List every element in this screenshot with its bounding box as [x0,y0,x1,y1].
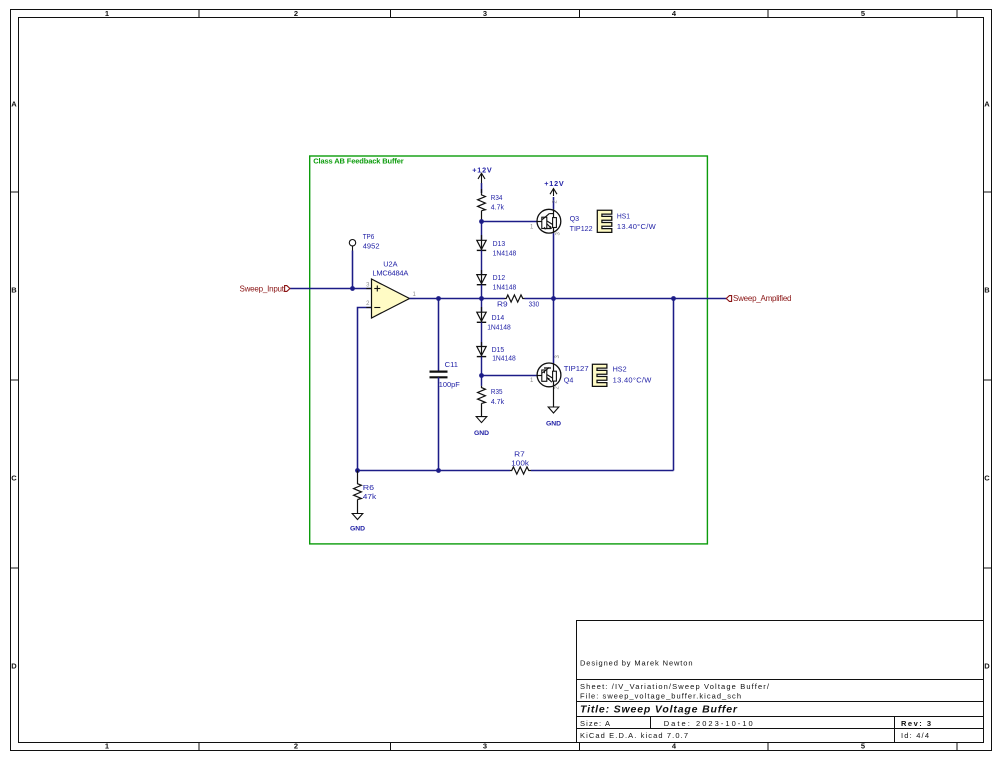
svg-text:B: B [11,286,17,295]
wire junction to Q4 base [482,375,538,377]
svg-text:1N4148: 1N4148 [493,283,517,292]
node junction TP6/input [350,286,355,291]
wire input [290,288,372,290]
wire feedback left [358,470,511,472]
diode D15 [477,342,516,362]
svg-text:D12: D12 [493,273,506,282]
svg-text:1N4148: 1N4148 [487,322,511,331]
svg-text:4952: 4952 [363,241,380,250]
svg-text:C: C [11,474,17,483]
resistor R6 [354,471,377,502]
test point TP6 [349,232,379,288]
resistor R7 [510,449,531,474]
wire D14 to D15 [481,322,483,346]
wire C11 top [438,299,440,372]
wire junction to Q3 base [482,221,537,223]
wire D13 to D12 [481,250,483,274]
heatsink HS1 [597,210,656,232]
wire +12V to Q3 collector [553,197,555,209]
svg-text:TIP122: TIP122 [570,224,593,233]
op-amp input pin stubs [366,288,372,290]
svg-text:Sheet: /IV_Variation/Sweep Vol: Sheet: /IV_Variation/Sweep Voltage Buffe… [580,682,770,691]
node junction output/feedback [671,296,676,301]
svg-text:2: 2 [294,742,298,751]
svg-text:1N4148: 1N4148 [492,353,516,362]
svg-text:D: D [11,662,17,671]
svg-text:1: 1 [105,9,109,18]
wire Q3 emitter to output [553,233,555,298]
diode D12 [477,270,516,292]
wire R34 junction down to D13 [481,222,483,241]
svg-text:Sweep_Input: Sweep_Input [240,285,285,294]
node junction output/diode chain [479,296,484,301]
svg-text:47k: 47k [363,492,377,501]
svg-text:100pF: 100pF [439,380,460,389]
svg-text:Date: 2023-10-10: Date: 2023-10-10 [664,719,753,728]
svg-text:330: 330 [529,299,540,308]
svg-text:3: 3 [483,9,487,18]
wire D15 to junction [481,357,483,376]
svg-text:HS2: HS2 [613,365,627,374]
svg-text:4.7k: 4.7k [491,397,504,406]
svg-text:Rev: 3: Rev: 3 [901,719,931,728]
svg-text:R6: R6 [363,483,374,492]
svg-text:C: C [984,474,990,483]
wire feedback vertical [673,299,675,471]
wire +12V to R34 [481,183,483,193]
svg-text:LMC6484A: LMC6484A [372,269,408,278]
title block [577,621,984,743]
svg-text:Sweep_Amplified: Sweep_Amplified [733,294,792,303]
node junction feedback/R6 [355,468,360,473]
node junction R34/D13/Q3 base [479,219,484,224]
svg-text:U2A: U2A [383,260,397,269]
svg-text:4.7k: 4.7k [491,203,504,212]
svg-text:D14: D14 [492,313,505,322]
wire C11 bottom [438,377,440,470]
svg-text:File: sweep_voltage_buffer.kic: File: sweep_voltage_buffer.kicad_sch [580,691,741,700]
ground below R35 [474,403,489,436]
svg-text:3: 3 [483,742,487,751]
diode D14 [477,307,511,331]
svg-text:GND: GND [474,430,489,437]
op-amp output pin stub [410,298,416,300]
svg-text:Q4: Q4 [564,375,574,384]
ground below R6 [350,500,365,533]
svg-text:B: B [984,286,990,295]
svg-text:GND: GND [546,421,561,428]
wire output node to D14 [481,299,483,313]
wire output to Q4 collector [553,299,555,364]
svg-text:Class AB Feedback Buffer: Class AB Feedback Buffer [313,157,404,166]
svg-text:HS1: HS1 [617,211,630,220]
svg-text:1: 1 [105,742,109,751]
svg-text:Q3: Q3 [570,214,580,223]
transistor Q4 TIP127 [530,355,589,390]
resistor R9 [497,295,539,308]
wire feedback right [531,470,674,472]
heatsink HS2 [592,364,652,386]
op-amp U2A [366,260,416,319]
svg-text:1N4148: 1N4148 [493,248,517,257]
svg-text:TP6: TP6 [363,232,375,241]
wire D12 to output node [481,285,483,299]
svg-text:TIP127: TIP127 [564,364,589,373]
svg-text:KiCad E.D.A. kicad 7.0.7: KiCad E.D.A. kicad 7.0.7 [580,731,688,740]
global label Sweep_Input [240,285,290,294]
svg-text:A: A [11,100,17,109]
ground below Q4 [546,407,561,428]
svg-text:R34: R34 [491,193,503,202]
transistor Q3 TIP122 [530,200,593,236]
svg-text:+12V: +12V [544,179,564,188]
power +12V (Q3) [544,179,564,196]
svg-text:A: A [984,100,990,109]
node junction feedback/C11 [436,468,441,473]
power +12V (R34) [472,165,492,183]
node junction D15/R35/Q4 base [479,373,484,378]
resistor R34 [478,189,505,222]
svg-text:5: 5 [861,9,865,18]
diode D13 [477,235,516,257]
wire op-amp inverting input [358,308,372,471]
wire output left [410,298,505,300]
svg-text:Title: Sweep Voltage Buffer: Title: Sweep Voltage Buffer [580,704,738,716]
wire output right [525,298,728,300]
svg-text:Designed by Marek Newton: Designed by Marek Newton [580,659,693,668]
svg-text:R9: R9 [497,299,508,308]
svg-text:13.40°C/W: 13.40°C/W [613,376,653,385]
resistor R35 [478,376,505,406]
svg-text:2: 2 [294,9,298,18]
capacitor C11 [430,360,461,389]
svg-text:R7: R7 [514,449,525,458]
global label Sweep_Amplified [726,294,791,303]
svg-text:Size: A: Size: A [580,719,610,728]
note box Class AB Feedback Buffer [310,156,708,544]
svg-text:+12V: +12V [472,165,492,174]
wire Q4 emitter to ground [553,387,555,407]
svg-text:GND: GND [350,526,365,533]
node junction output/C11 [436,296,441,301]
node junction output/Q3 emitter [551,296,556,301]
svg-text:R35: R35 [491,387,503,396]
svg-text:C11: C11 [445,360,458,369]
svg-text:Id: 4/4: Id: 4/4 [901,731,929,740]
svg-text:D13: D13 [493,239,506,248]
svg-text:100k: 100k [511,458,529,467]
svg-text:D: D [984,662,990,671]
svg-text:13.40°C/W: 13.40°C/W [617,222,657,231]
